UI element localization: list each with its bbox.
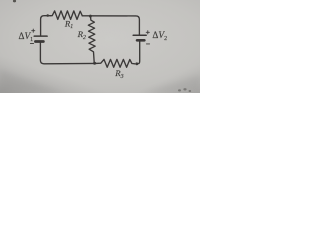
- resistor R2 (vertical): [88, 16, 95, 62]
- plus sign of battery V1: [32, 29, 35, 32]
- node at R3 right / V2 bottom junction: [135, 62, 138, 65]
- battery V1 bottom plate (short, thick, -): [35, 40, 43, 43]
- wire: left branch top (battery V1 plus terminal up to top-left corner, to R1): [41, 16, 51, 36]
- resistor R1: [50, 11, 82, 20]
- node at R1 left lead: [46, 14, 49, 17]
- node junction of R2 on bottom wire: [93, 62, 96, 65]
- wire: top from R1 to top-right corner down to battery V2: [82, 16, 139, 35]
- battery V2 bottom plate (short, thick, -): [137, 39, 144, 42]
- battery V1 top plate (long, +): [34, 35, 47, 37]
- battery V2 top plate (long, +): [133, 34, 146, 36]
- node junction of R2 on top wire: [89, 15, 92, 18]
- resistor R3: [96, 59, 135, 67]
- stray ink speck top edge: [13, 0, 16, 2]
- stray ink specks bottom right (cut-off text line): [178, 88, 191, 92]
- plus sign of battery V2: [146, 31, 149, 34]
- minus sign of battery V2: [146, 43, 149, 45]
- minus sign of battery V1: [30, 43, 33, 45]
- paper background: [0, 0, 200, 93]
- wire: battery V2 minus terminal down to bottom wire: [137, 41, 140, 64]
- wire: bottom left (battery V1 minus terminal down and right to R3): [40, 42, 96, 64]
